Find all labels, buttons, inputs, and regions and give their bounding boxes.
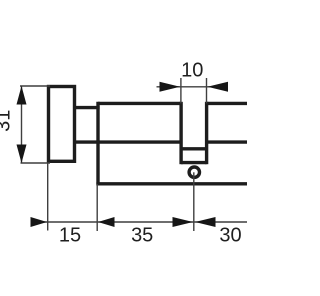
dimension 35 arrow left [98, 217, 115, 227]
cylinder mid line left of cam slot [73, 140, 181, 143]
dimension 31 line [21, 86, 23, 163]
bottom extension line at cam centre [193, 172, 195, 231]
cylinder body top edge right of cam slot [207, 102, 247, 105]
cam slot right edge [205, 102, 208, 164]
thumbturn knob outline [49, 87, 75, 162]
dimension 31 arrow up [17, 86, 27, 105]
dimension 10 extension line left [180, 78, 182, 103]
svg-text:35: 35 [131, 224, 153, 246]
cylinder body left edge [96, 102, 99, 186]
cam slot bottom edge [181, 161, 207, 164]
dimension 10 arrow right [207, 82, 228, 92]
svg-text:10: 10 [181, 60, 203, 82]
svg-text:30: 30 [219, 224, 241, 246]
bottom extension line at cylinder body start [96, 184, 98, 231]
cylinder body bottom edge [96, 182, 247, 185]
cam slot left edge [179, 102, 182, 164]
dimension 31 arrow down [17, 145, 27, 164]
knob neck top line [73, 106, 100, 109]
cylinder mid line right of cam slot [207, 140, 247, 143]
fixing screw hole circle [189, 167, 199, 177]
dimension 10 extension line right [206, 78, 208, 103]
dimension 15 arrow [31, 217, 48, 227]
dimension 35 arrow right [173, 217, 194, 227]
svg-text:31: 31 [0, 110, 14, 132]
bottom dimension line [31, 221, 248, 223]
dimension 10 line [157, 86, 229, 88]
svg-text:15: 15 [59, 224, 81, 246]
cylinder body top edge left of cam slot [98, 102, 181, 105]
dimension 31 extension line top [20, 85, 50, 87]
dimension 10 arrow left [160, 82, 181, 92]
dimension 31 extension line bottom [21, 162, 51, 164]
dimension 30 arrow left [195, 217, 216, 227]
cam slot inner step line [181, 147, 207, 150]
bottom extension line at knob front [47, 163, 49, 231]
